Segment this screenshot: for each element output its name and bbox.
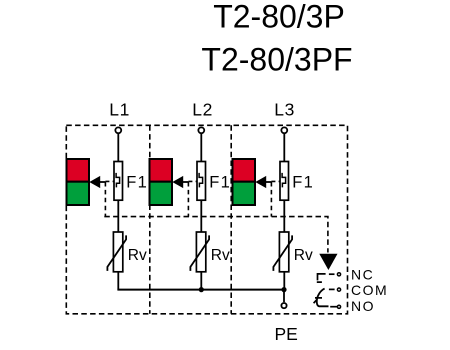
PE bus wire (117, 289, 284, 291)
indicator arrow module2 (173, 177, 182, 188)
varistor Rv module1 body (113, 232, 122, 272)
linkage dash junction to fuse module1 (105, 180, 114, 182)
NO dash (330, 306, 337, 308)
varistor Rv module2 diagonal stroke (190, 235, 209, 271)
module divider dashed line 2 (230, 125, 232, 313)
status indicator window module1 green half (67, 182, 90, 205)
NO terminal (337, 305, 340, 308)
thermal disconnect contact inside F1 module2 (199, 173, 203, 188)
svg-text:T2-80/3P: T2-80/3P (213, 0, 345, 35)
terminal PE (281, 303, 286, 308)
NC fixed contact bracket (317, 274, 326, 282)
wire bus to PE terminal (283, 290, 285, 303)
status indicator window module1 red half (67, 159, 90, 182)
svg-text:PE: PE (275, 324, 298, 344)
varistor Rv module1 diagonal stroke (107, 235, 126, 271)
wire varistor to PE bus module1 (117, 272, 119, 290)
enclosure dashed box (66, 125, 347, 313)
wire L3 terminal to fuse F1 (283, 133, 285, 162)
wire fuse to varistor module2 (200, 200, 202, 232)
junction node L2/PE bus (199, 287, 204, 292)
indicator arrow module3 (256, 177, 265, 188)
COM terminal (337, 288, 340, 291)
module divider dashed line 1 (149, 125, 151, 313)
svg-text:F1: F1 (292, 174, 314, 192)
fuse F1 module1 body (114, 162, 123, 201)
mechanical linkage dashed line to remote contact (104, 217, 328, 253)
svg-text:L3: L3 (274, 100, 295, 120)
linkage dashed drop module1 (104, 182, 106, 217)
linkage dashed drop module3 (270, 182, 272, 217)
junction node L3/PE bus (281, 287, 286, 292)
thermal disconnect contact inside F1 module3 (282, 173, 286, 188)
linkage wire arrow to junction module3 (265, 181, 271, 183)
linkage wire arrow to junction module1 (99, 181, 105, 183)
linkage actuator triangle (319, 254, 337, 270)
status indicator window module3 green half (233, 182, 256, 205)
svg-text:T2-80/3PF: T2-80/3PF (201, 42, 352, 78)
wire varistor to PE bus module2 (200, 272, 202, 290)
status indicator window module3 red half (233, 159, 256, 182)
NC terminal (337, 273, 340, 276)
terminal L3 (281, 127, 287, 133)
svg-text:NC: NC (351, 267, 374, 283)
NC dash (329, 273, 335, 275)
status indicator window module2 red half (150, 159, 173, 182)
wire varistor to PE bus module3 (283, 272, 285, 290)
terminal L1 (115, 127, 121, 133)
svg-text:F1: F1 (209, 174, 231, 192)
svg-text:Rv: Rv (211, 247, 230, 264)
varistor Rv module3 body (279, 232, 288, 272)
linkage dashed drop module2 (187, 182, 189, 217)
COM dash (329, 288, 335, 290)
thermal disconnect contact inside F1 module1 (116, 173, 120, 188)
svg-text:Rv: Rv (128, 247, 147, 264)
svg-text:L1: L1 (109, 100, 130, 120)
fuse F1 module2 body (197, 162, 206, 201)
status indicator window module2 green half (150, 182, 173, 205)
linkage wire arrow to junction module2 (182, 181, 188, 183)
changeover contact lever (314, 289, 329, 307)
svg-text:COM: COM (351, 282, 388, 298)
varistor Rv module2 body (196, 232, 205, 272)
wire L2 terminal to fuse F1 (200, 133, 202, 162)
wire fuse to varistor module1 (117, 200, 119, 232)
svg-text:F1: F1 (126, 174, 148, 192)
varistor Rv module3 diagonal stroke (273, 235, 292, 271)
indicator arrow module1 (90, 177, 99, 188)
fuse F1 module3 body (280, 162, 289, 201)
linkage dash junction to fuse module3 (271, 180, 280, 182)
wire fuse to varistor module3 (283, 200, 285, 232)
linkage dash junction to fuse module2 (188, 180, 197, 182)
svg-text:L2: L2 (192, 100, 213, 120)
svg-text:NO: NO (351, 298, 375, 314)
terminal L2 (198, 127, 204, 133)
svg-text:Rv: Rv (294, 247, 313, 264)
wire L1 terminal to fuse F1 (117, 133, 119, 162)
